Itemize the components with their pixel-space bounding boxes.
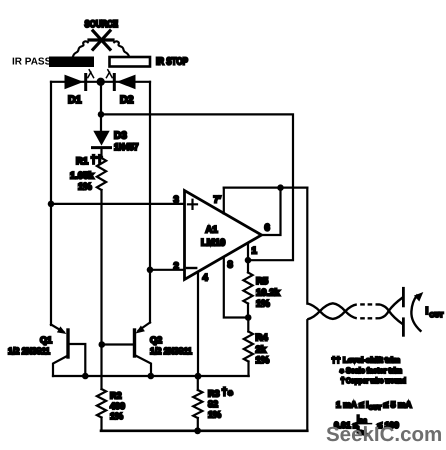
svg-text:R2: R2 [110, 391, 122, 401]
svg-text:1%: 1% [110, 411, 123, 421]
svg-text:8: 8 [228, 260, 233, 271]
light ray squiggle right [114, 41, 129, 56]
svg-text:2k: 2k [256, 345, 267, 356]
svg-text:IR PASS: IR PASS [12, 57, 52, 68]
svg-text:R1: R1 [76, 156, 89, 167]
wire D3 to R1 [100, 148, 102, 158]
svg-text:Scale factor trim: Scale factor trim [346, 366, 402, 375]
lamp (light source asterisk) [89, 31, 113, 50]
wire pin 4 down [197, 273, 199, 377]
node diode junction [97, 78, 105, 86]
node pin4/R3 on rail [195, 373, 202, 380]
node output junction [277, 184, 284, 191]
svg-text:10.2k: 10.2k [256, 288, 280, 299]
svg-text:LM10: LM10 [201, 238, 225, 249]
wire center column lower [100, 190, 102, 389]
svg-text:D3: D3 [114, 131, 127, 142]
svg-text:IR STOP: IR STOP [156, 57, 188, 68]
wire pin 1 stub [247, 244, 249, 261]
svg-text:SOURCE: SOURCE [85, 19, 119, 30]
svg-text:R4: R4 [256, 333, 269, 344]
node pin2 tap [147, 267, 154, 274]
wire pin 7 up [223, 188, 225, 214]
wire pin 6 output [261, 188, 281, 235]
transistor Q2 1/2 2N3811 [139, 323, 151, 331]
resistor R1 1.05k [97, 158, 106, 190]
svg-text:D1: D1 [68, 94, 82, 106]
svg-text:2: 2 [174, 261, 179, 272]
node pin3 tap on left rail [48, 201, 55, 208]
wire center column top [100, 82, 102, 131]
svg-text:†: † [222, 386, 228, 398]
wire bottom rail up to twisted pair [306, 320, 308, 431]
svg-text:3: 3 [174, 195, 179, 206]
wire feedback top (to pin1 via right vertical) [101, 114, 293, 260]
node pin1/R5 [245, 257, 252, 264]
node Q2 collector on rail [148, 373, 155, 380]
wire left rail [50, 82, 52, 325]
svg-text:R5: R5 [256, 276, 269, 287]
svg-text:††: †† [332, 356, 341, 365]
IR PASS filter (filled) [49, 57, 94, 68]
photodiode D1 [65, 75, 84, 90]
svg-text:1/2 2N3811: 1/2 2N3811 [150, 346, 192, 356]
wire output drop to twisted pair [306, 188, 308, 304]
svg-text:1%: 1% [256, 299, 270, 310]
twisted pair right terminal bars [402, 288, 405, 306]
svg-text:Level-shift trim: Level-shift trim [343, 356, 400, 365]
svg-text:1.05k: 1.05k [70, 171, 94, 182]
wire summing rail [53, 375, 249, 377]
wire to pin 2 [150, 269, 185, 271]
lambda mark over D2 [106, 70, 112, 78]
svg-text:6: 6 [265, 223, 270, 234]
wire right rail (D2 anode down to Q2 emitter) [149, 82, 151, 323]
resistor R3 82 [197, 376, 199, 390]
diode D3 1N457 [93, 131, 109, 146]
Iout arrow arc [411, 296, 420, 331]
wire to pin 3 [51, 203, 185, 205]
svg-text:82: 82 [208, 399, 218, 409]
svg-text:1N457: 1N457 [114, 142, 139, 153]
resistor R5 10.2k [247, 260, 249, 272]
lambda mark over D1 [88, 70, 94, 78]
svg-text:Q1: Q1 [40, 335, 52, 345]
svg-text:4: 4 [203, 273, 209, 284]
svg-text:I: I [426, 306, 429, 317]
node R3 bottom [194, 427, 201, 434]
wire pin 8 [224, 258, 248, 318]
svg-text:1: 1 [252, 246, 258, 257]
svg-text:400: 400 [110, 401, 125, 411]
IR STOP filter (open) [110, 57, 151, 67]
svg-text:††: †† [91, 154, 103, 166]
svg-text:1%: 1% [78, 182, 92, 193]
svg-text:OUT: OUT [430, 312, 444, 319]
op-amp plus sign [188, 200, 197, 209]
transistor Q1 1/2 2N3811 [51, 325, 64, 333]
svg-text:1%: 1% [208, 410, 221, 420]
resistor R4 2k [247, 318, 249, 332]
svg-text:*: * [228, 388, 233, 402]
svg-text:SeekIC.com: SeekIC.com [326, 423, 442, 446]
twisted pair winding [307, 297, 403, 324]
node Q1 base on rail [82, 373, 89, 380]
wire output top run [224, 187, 307, 189]
svg-text:†: † [341, 376, 345, 385]
wire diode row D1-D2 [51, 81, 150, 83]
op-amp A1 LM10 [185, 191, 262, 280]
svg-text:1/2 2N3811: 1/2 2N3811 [8, 346, 50, 356]
resistor R2 400 [97, 389, 106, 418]
svg-text:A1: A1 [206, 225, 219, 236]
node R5/R4 junction [245, 314, 252, 321]
light ray squiggle left [73, 41, 88, 56]
photodiode D2 [117, 75, 136, 90]
svg-text:1%: 1% [256, 355, 270, 366]
op-amp minus sign [187, 267, 196, 269]
svg-text:Copper wire wound: Copper wire wound [346, 376, 406, 385]
svg-text:7′: 7′ [214, 195, 222, 206]
svg-text:Q2: Q2 [150, 335, 162, 345]
wire bottom rail [101, 429, 307, 432]
node feedback tap [98, 111, 105, 118]
node Q2 base tap [99, 341, 106, 348]
svg-text:D2: D2 [120, 94, 134, 106]
svg-text:R3: R3 [208, 389, 220, 399]
